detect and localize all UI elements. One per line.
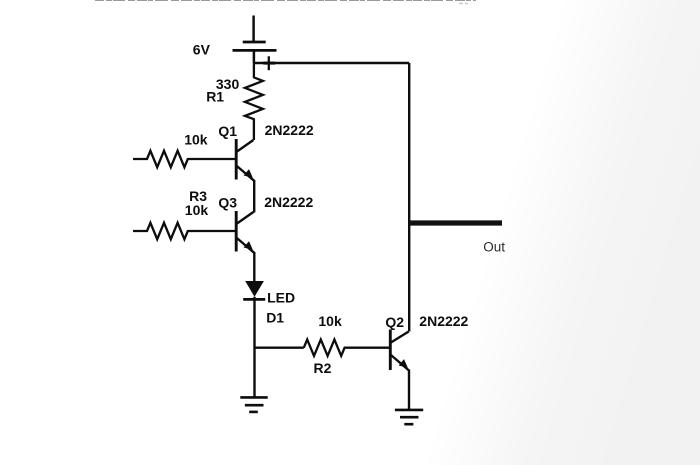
- resistor R3 10k (input 2) zigzag: [133, 223, 235, 239]
- wire Q2 emitter to ground: [408, 370, 410, 410]
- transistor Q3 base bar: [235, 211, 238, 252]
- wire right rail down to Q2 collector: [408, 63, 410, 332]
- svg-text:R1: R1: [206, 88, 224, 104]
- svg-text:10k: 10k: [185, 202, 209, 218]
- wire battery to top rail: [253, 50, 256, 63]
- transistor Q3 collector lead: [237, 212, 254, 224]
- svg-text:10k: 10k: [318, 313, 342, 329]
- resistor R2 zigzag: [304, 340, 389, 356]
- transistor Q2 emitter arrow: [399, 359, 408, 368]
- wire Q3 emitter to LED anode: [253, 252, 255, 282]
- ground (LED chain) bar 3: [249, 411, 258, 414]
- svg-text:2N2222: 2N2222: [265, 122, 314, 138]
- transistor Q3 emitter lead: [237, 238, 254, 253]
- svg-text:R2: R2: [314, 360, 332, 376]
- transistor Q1 emitter arrow: [244, 169, 253, 178]
- LED D1 cathode bar: [243, 298, 265, 301]
- LED D1 triangle: [245, 281, 264, 297]
- resistor R1 zigzag: [245, 63, 263, 140]
- wire node to R2: [255, 347, 304, 349]
- battery V1 positive plate: [233, 49, 277, 52]
- ground (Q2) bar 1: [395, 409, 423, 412]
- wire LED cathode to ground: [253, 297, 255, 398]
- plus polarity mark: [263, 56, 275, 70]
- battery V1 negative plate: [243, 41, 266, 44]
- svg-text:Q3: Q3: [218, 194, 237, 210]
- transistor Q1 base bar: [235, 139, 238, 180]
- transistor Q2 emitter lead: [391, 355, 409, 371]
- transistor Q1 emitter lead: [237, 166, 254, 181]
- svg-text:Out: Out: [483, 240, 505, 255]
- ground (LED chain) bar 2: [245, 404, 264, 407]
- transistor Q1 collector lead: [237, 140, 254, 152]
- ground (Q2) bar 3: [404, 423, 413, 426]
- svg-text:LED: LED: [267, 290, 295, 306]
- node Out terminal (thick stub): [409, 220, 502, 225]
- transistor Q2 collector lead: [391, 332, 409, 343]
- svg-text:2N2222: 2N2222: [419, 313, 468, 329]
- ground (LED chain) bar 1: [240, 396, 267, 399]
- svg-text:Q2: Q2: [385, 314, 404, 330]
- svg-text:10k: 10k: [184, 132, 208, 148]
- cropped text remnants at top edge: [95, 1, 476, 4]
- transistor Q2 base bar: [389, 330, 392, 371]
- resistor 10k (input 1) zigzag: [133, 151, 235, 167]
- wire Q1 emitter to Q3 collector: [253, 180, 255, 213]
- transistor Q3 emitter arrow: [244, 241, 253, 250]
- svg-text:6V: 6V: [193, 41, 211, 57]
- svg-text:Q1: Q1: [218, 123, 237, 139]
- wire top rail (V+ to right): [254, 62, 409, 64]
- svg-text:D1: D1: [266, 310, 284, 326]
- ground (Q2) bar 2: [400, 416, 419, 419]
- svg-text:2N2222: 2N2222: [264, 194, 313, 210]
- battery V1 top terminal wire: [252, 16, 255, 43]
